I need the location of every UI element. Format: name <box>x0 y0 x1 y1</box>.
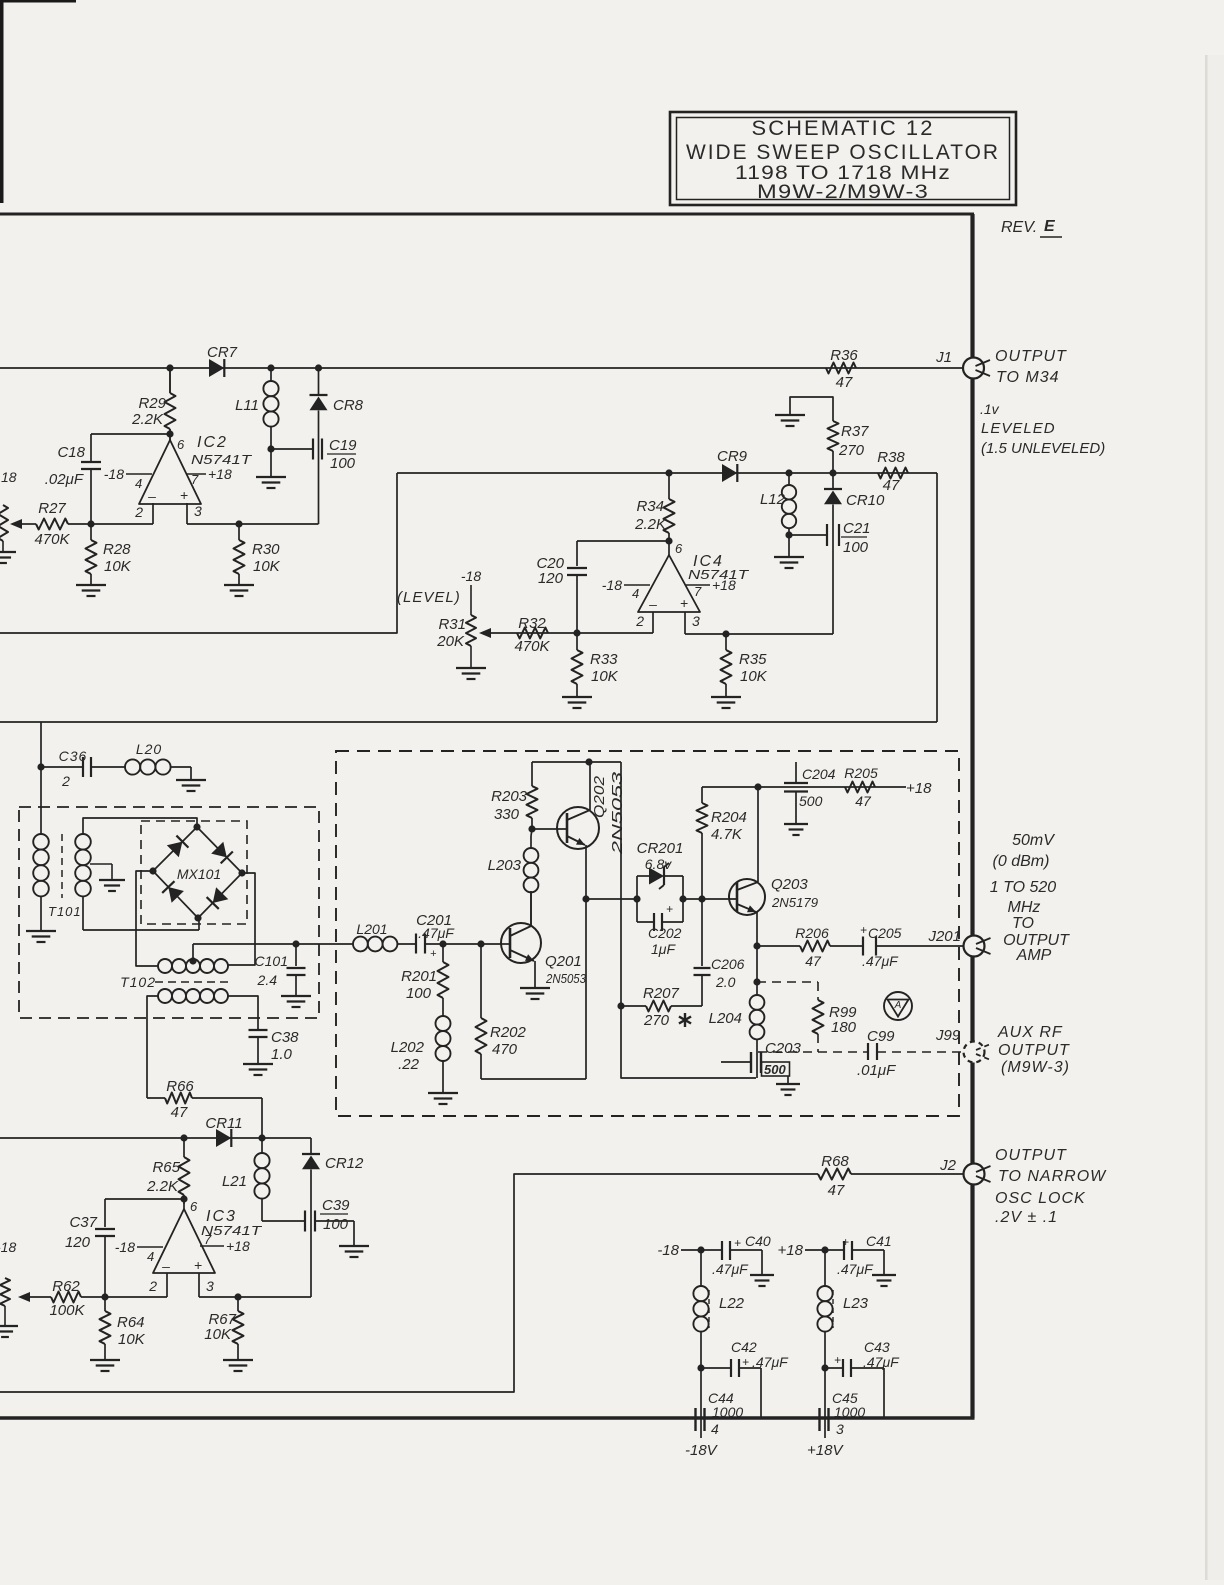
ground: R33 <box>562 696 592 698</box>
svg-text:R36: R36 <box>830 347 858 364</box>
svg-text:1000: 1000 <box>834 1404 865 1420</box>
resistor R67 <box>237 1297 239 1311</box>
svg-text:47: 47 <box>836 374 853 391</box>
svg-text:3: 3 <box>206 1278 214 1294</box>
svg-text:2.4: 2.4 <box>257 972 278 988</box>
ground: C101 <box>281 995 311 997</box>
IC2 pin4 -18 <box>126 473 152 475</box>
svg-text:AMP: AMP <box>1016 947 1052 964</box>
svg-text:7: 7 <box>204 1232 212 1247</box>
node: R202 top <box>477 940 484 947</box>
svg-text:C206: C206 <box>711 956 745 972</box>
wire: T102 tap up to RF line <box>192 944 194 961</box>
resistor R65 <box>179 1157 190 1195</box>
resistor R37 and ground stub <box>832 451 834 473</box>
svg-text:+18: +18 <box>712 577 736 593</box>
capacitor C206 <box>701 899 703 966</box>
resistor R30 <box>238 524 240 540</box>
svg-text:(1.5 UNLEVELED): (1.5 UNLEVELED) <box>981 440 1105 457</box>
svg-text:.47μF: .47μF <box>752 1354 789 1370</box>
inductor L22 <box>700 1250 702 1286</box>
svg-text:100: 100 <box>323 1216 349 1233</box>
svg-text:2: 2 <box>134 504 143 520</box>
svg-text:L23: L23 <box>843 1295 869 1312</box>
node: C43 tee <box>821 1364 828 1371</box>
svg-text:N5741T: N5741T <box>191 452 252 467</box>
svg-text:(0 dBm): (0 dBm) <box>993 853 1050 870</box>
node: R33 top <box>573 629 580 636</box>
capacitor C18 <box>81 461 101 463</box>
svg-text:.47μF: .47μF <box>862 953 899 969</box>
svg-text:MHz: MHz <box>1008 899 1041 916</box>
capacitor C21 <box>789 534 827 536</box>
svg-text:C202: C202 <box>648 925 682 941</box>
svg-text:TO: TO <box>1012 915 1034 932</box>
svg-text:2.2K: 2.2K <box>131 411 164 428</box>
node: L11 bottom <box>267 445 274 452</box>
svg-text:120: 120 <box>65 1234 91 1251</box>
node: R201 top <box>439 940 446 947</box>
capacitor C39 <box>262 1220 305 1222</box>
node: bridge top vertex <box>193 823 200 830</box>
IC3 pin4 -18 <box>137 1246 163 1248</box>
resistor R35 <box>725 634 727 650</box>
resistor R33 <box>576 633 578 650</box>
svg-text:-18: -18 <box>0 1239 16 1255</box>
svg-text:C41: C41 <box>866 1233 892 1249</box>
wire: collector supply drop <box>621 762 756 1078</box>
svg-text:.02μF: .02μF <box>45 471 84 488</box>
svg-text:REV.: REV. <box>1001 219 1037 236</box>
svg-text:1000: 1000 <box>712 1404 743 1420</box>
wire: T101 secondary bottom to bridge <box>83 929 199 931</box>
ground: C203 <box>776 1083 800 1085</box>
svg-text:100: 100 <box>843 539 869 556</box>
capacitor C20 <box>567 567 587 569</box>
svg-text:-18V: -18V <box>685 1442 719 1459</box>
svg-text:E: E <box>1044 218 1056 235</box>
svg-text:C21: C21 <box>843 520 871 537</box>
svg-text:10K: 10K <box>204 1326 232 1343</box>
wire: CR201 to Q203 base <box>683 898 737 900</box>
wire: pin2 node to riser <box>105 1296 167 1298</box>
svg-text:R38: R38 <box>877 449 905 466</box>
svg-text:+: + <box>680 595 688 611</box>
IC3 pin2 riser <box>166 1273 168 1297</box>
node: CR201 right <box>679 895 686 902</box>
svg-text:2.0: 2.0 <box>715 974 736 990</box>
node: L22 top <box>697 1246 704 1253</box>
svg-text:10K: 10K <box>740 668 768 685</box>
svg-text:+: + <box>666 902 673 916</box>
svg-text:L203: L203 <box>488 857 522 874</box>
node: L12 top <box>785 469 792 476</box>
svg-text:+: + <box>834 1353 841 1367</box>
mixer diode bottom-left <box>168 887 184 903</box>
svg-text:L21: L21 <box>222 1173 247 1190</box>
svg-text:R32: R32 <box>518 615 546 632</box>
node: T102 primary tap <box>189 957 196 964</box>
node: C101 junction <box>292 940 299 947</box>
node: IC3 pin2 node <box>101 1293 108 1300</box>
svg-text:1198 TO 1718 MHz: 1198 TO 1718 MHz <box>735 163 951 184</box>
node: Q202 collector junction <box>585 758 592 765</box>
svg-text:R64: R64 <box>117 1314 145 1331</box>
svg-text:1.0: 1.0 <box>271 1046 293 1063</box>
svg-text:-18: -18 <box>104 466 124 482</box>
ground: C41 <box>872 1274 896 1276</box>
ground: C39 <box>339 1245 369 1247</box>
svg-text:4.7K: 4.7K <box>711 826 743 843</box>
svg-text:470: 470 <box>492 1041 518 1058</box>
node: C36 tee <box>37 763 44 770</box>
svg-text:.22: .22 <box>398 1056 420 1073</box>
svg-text:+18: +18 <box>208 466 232 482</box>
node: Q203 emitter junction <box>753 942 760 949</box>
transformer T102 primary <box>158 959 172 973</box>
node: C42 tee <box>697 1364 704 1371</box>
node: Q203 collector junction <box>754 783 761 790</box>
svg-text:CR12: CR12 <box>325 1155 364 1172</box>
node: R34 top <box>665 469 672 476</box>
dashed aux branch <box>757 981 818 983</box>
node: L21 top <box>258 1134 265 1141</box>
svg-text:OSC LOCK: OSC LOCK <box>995 1190 1086 1207</box>
svg-text:(M9W-3): (M9W-3) <box>1001 1059 1070 1076</box>
IC4 pin2 riser <box>652 612 654 633</box>
svg-text:–: – <box>648 596 657 612</box>
svg-text:47: 47 <box>855 793 872 809</box>
svg-text:100K: 100K <box>49 1302 85 1319</box>
inductor L21 <box>261 1138 263 1153</box>
svg-text:+: + <box>180 487 188 503</box>
symbol: circled test point A <box>884 992 912 1020</box>
node: L12 bottom <box>785 531 792 538</box>
resistor R204 <box>701 833 703 899</box>
node: L23 top <box>821 1246 828 1253</box>
node: CR10 top <box>829 469 836 476</box>
svg-text:T102: T102 <box>120 974 156 990</box>
svg-text:3: 3 <box>194 503 202 519</box>
svg-text:2N5053: 2N5053 <box>545 971 587 986</box>
IC4 pin3 riser <box>684 612 686 634</box>
mixer MX101 diamond ring <box>153 827 242 918</box>
node: IC2 pin6 junction <box>166 430 173 437</box>
node: Q202 emitter junction <box>582 895 589 902</box>
svg-text:2N5179: 2N5179 <box>771 895 818 910</box>
diode CR11 <box>216 1129 231 1147</box>
node: IC4 pin6 <box>665 537 672 544</box>
IC3 pin7 +18 <box>200 1245 224 1247</box>
capacitor C99 <box>867 1043 869 1060</box>
diode CR9 <box>722 464 737 482</box>
svg-text:2: 2 <box>148 1278 157 1294</box>
svg-text:Q201: Q201 <box>545 953 582 970</box>
node: CR201 left <box>633 895 640 902</box>
svg-text:R30: R30 <box>252 541 280 558</box>
feedthrough C203 <box>721 1061 751 1063</box>
op-amp IC2 <box>169 429 171 440</box>
capacitor C202 <box>637 921 654 923</box>
capacitor C19 <box>271 448 313 450</box>
svg-text:-18: -18 <box>657 1242 679 1259</box>
svg-text:6: 6 <box>190 1199 198 1214</box>
svg-text:3: 3 <box>836 1421 844 1437</box>
feedthrough C44 <box>700 1368 702 1438</box>
capacitor C205 <box>862 937 864 956</box>
svg-text:270: 270 <box>643 1012 670 1029</box>
resistor R38 <box>878 468 908 479</box>
wire: feedback left drop <box>0 473 397 633</box>
resistor R99 <box>813 1000 824 1034</box>
svg-text:R28: R28 <box>103 541 131 558</box>
svg-text:4: 4 <box>711 1421 719 1437</box>
svg-text:.47μF: .47μF <box>418 925 455 941</box>
ground: R30 <box>224 584 254 586</box>
zener CR201 / C202 loop <box>636 876 638 922</box>
wire: C37 top <box>105 1198 184 1200</box>
wire: CR12 branch <box>310 1138 312 1154</box>
svg-text:J201: J201 <box>927 928 961 945</box>
svg-text:IC2: IC2 <box>197 434 228 451</box>
wire: main top line to J1 <box>0 367 963 369</box>
node: R29 top junction <box>166 364 173 371</box>
svg-text:–: – <box>147 488 156 504</box>
svg-text:Q202: Q202 <box>591 775 608 818</box>
svg-text:50mV: 50mV <box>1012 832 1055 849</box>
wire: IC4 pin3 line <box>685 633 833 635</box>
node: R35 top <box>722 630 729 637</box>
wire: R38 down leg <box>936 473 938 722</box>
ground: C204 <box>784 823 808 825</box>
ground: L20 <box>190 767 192 779</box>
node: R67 top <box>234 1293 241 1300</box>
svg-text:-18: -18 <box>602 577 622 593</box>
svg-text:2.2K: 2.2K <box>146 1178 179 1195</box>
svg-text:TO NARROW: TO NARROW <box>998 1168 1107 1185</box>
svg-text:10K: 10K <box>253 558 281 575</box>
T101 core dashed line <box>61 834 63 898</box>
resistor R206 <box>757 945 800 947</box>
node: bridge bottom vertex <box>194 914 201 921</box>
resistor R29 <box>169 368 171 393</box>
svg-text:R68: R68 <box>821 1153 849 1170</box>
T102 core dashed line <box>155 981 230 983</box>
wire: IC3 pin3 line <box>199 1296 311 1298</box>
IC3 pin3 riser <box>198 1273 200 1297</box>
IC2 pin3 riser <box>186 503 188 524</box>
diode CR8 <box>318 368 320 395</box>
node: bridge left vertex <box>149 867 156 874</box>
svg-text:R62: R62 <box>52 1278 80 1295</box>
connector J201 <box>964 936 985 957</box>
svg-text:+: + <box>194 1257 202 1273</box>
ground: L202 <box>428 1092 458 1094</box>
svg-text:CR10: CR10 <box>846 492 885 509</box>
svg-text:J99: J99 <box>935 1027 961 1044</box>
svg-text:MX101: MX101 <box>177 866 221 882</box>
svg-text:180: 180 <box>831 1019 857 1036</box>
svg-text:6: 6 <box>177 437 185 452</box>
svg-text:C205: C205 <box>868 925 902 941</box>
inductor L11 <box>270 368 272 381</box>
svg-text:(LEVEL): (LEVEL) <box>397 589 461 606</box>
svg-text:LEVELED: LEVELED <box>981 420 1056 437</box>
svg-text:R33: R33 <box>590 651 618 668</box>
T101 secondary center tap ground <box>90 863 112 865</box>
svg-text:J2: J2 <box>939 1157 957 1174</box>
dashed box: T101/T102 mixer assembly <box>19 807 319 1018</box>
svg-text:47: 47 <box>883 477 900 494</box>
svg-text:C40: C40 <box>745 1233 771 1249</box>
svg-text:100: 100 <box>406 985 432 1002</box>
svg-text:C19: C19 <box>329 437 357 454</box>
svg-text:7: 7 <box>191 472 199 487</box>
node: Q202 base node <box>528 825 535 832</box>
svg-text:OUTPUT: OUTPUT <box>995 1147 1067 1164</box>
svg-text:2N5053: 2N5053 <box>609 771 626 856</box>
wire: pin2 node to riser <box>91 523 153 525</box>
transformer T102 secondary <box>158 989 172 1003</box>
svg-text:500: 500 <box>799 793 823 809</box>
capacitor C42 <box>701 1367 731 1369</box>
wire: IC4 pin2 line <box>488 632 653 634</box>
ground: R35 <box>711 696 741 698</box>
svg-text:R201: R201 <box>401 968 437 985</box>
connector J99 (dashed) <box>964 1042 985 1063</box>
inductor L201 <box>353 937 368 952</box>
dashed box: oscillator module <box>336 751 959 1116</box>
resistor R36 <box>826 363 856 374</box>
ground: Q201 emitter <box>520 987 550 989</box>
svg-text:M9W-2/M9W-3: M9W-2/M9W-3 <box>757 182 929 203</box>
svg-text:4: 4 <box>147 1249 154 1264</box>
node: L204 top tap <box>753 978 760 985</box>
svg-text:–: – <box>161 1258 170 1274</box>
svg-text:7: 7 <box>694 584 702 599</box>
svg-text:470K: 470K <box>34 531 70 548</box>
wire: left vertex to T102 <box>136 871 158 966</box>
svg-text:C39: C39 <box>322 1197 350 1214</box>
capacitor C37 <box>95 1228 115 1230</box>
svg-text:OUTPUT: OUTPUT <box>998 1042 1070 1059</box>
svg-text:47: 47 <box>171 1104 188 1121</box>
node: IC3 pin6 <box>180 1195 187 1202</box>
svg-text:R207: R207 <box>643 985 680 1002</box>
ground: R64 <box>90 1359 120 1361</box>
transistor Q202 <box>557 807 599 849</box>
svg-text:47: 47 <box>805 953 822 969</box>
svg-text:R204: R204 <box>711 809 747 826</box>
svg-text:C204: C204 <box>802 766 836 782</box>
svg-text:6: 6 <box>675 541 683 556</box>
svg-text:1μF: 1μF <box>651 941 676 957</box>
svg-text:R202: R202 <box>490 1024 527 1041</box>
svg-text:R31: R31 <box>438 616 466 633</box>
connector J1 <box>963 358 984 379</box>
wire: RF line to L201 <box>193 943 353 945</box>
inductor L203 <box>524 848 539 863</box>
page artifact: right page-edge shadow line <box>1205 55 1208 1580</box>
op-amp IC4 <box>638 555 700 612</box>
wire: right vertex to T102 <box>228 873 255 965</box>
resistor R64 <box>104 1297 106 1311</box>
IC4 pin7 +18 <box>686 584 710 586</box>
svg-text:C203: C203 <box>765 1040 802 1057</box>
mixer diode top-left <box>167 842 183 858</box>
capacitor C43 <box>825 1367 843 1369</box>
connector J2 <box>964 1164 985 1185</box>
inductor L204 <box>756 946 758 995</box>
svg-text:CR9: CR9 <box>717 448 748 465</box>
node: IC2 pin2 node <box>87 520 94 527</box>
transistor Q203 <box>729 879 765 915</box>
wire: Q202 collector top line <box>532 761 621 763</box>
capacitor C41 <box>825 1249 844 1251</box>
transformer T101 secondary <box>75 834 91 850</box>
transformer T101 primary <box>40 767 42 834</box>
svg-text:OUTPUT: OUTPUT <box>995 348 1067 365</box>
ground: L11 <box>270 449 272 476</box>
svg-text:CR11: CR11 <box>205 1115 242 1132</box>
svg-text:.1v: .1v <box>980 401 1000 417</box>
capacitor C101 <box>295 944 297 966</box>
svg-text:SCHEMATIC 12: SCHEMATIC 12 <box>752 117 935 140</box>
resistor R32 <box>517 628 548 639</box>
capacitor C36 <box>41 766 83 768</box>
svg-text:R206: R206 <box>795 925 829 941</box>
node: R207 left <box>617 1002 624 1009</box>
svg-text:+: + <box>734 1236 741 1250</box>
wire: bottom feedback line y722 <box>0 721 937 723</box>
wire: Q202 emitter to CR201 <box>586 898 637 900</box>
svg-text:100: 100 <box>330 455 356 472</box>
resistor R202 <box>480 944 482 1018</box>
feedthrough C204 <box>784 782 808 784</box>
IC2 pin7 +18 <box>186 473 206 475</box>
title box <box>670 112 1016 205</box>
svg-text:C36: C36 <box>59 748 88 764</box>
svg-text:C42: C42 <box>731 1339 757 1355</box>
ground: C38 <box>243 1063 273 1065</box>
svg-text:3: 3 <box>692 613 700 629</box>
capacitor C201 <box>415 934 417 954</box>
svg-text:J1: J1 <box>935 349 952 366</box>
svg-text:.47μF: .47μF <box>712 1261 749 1277</box>
svg-text:R27: R27 <box>38 500 66 517</box>
node: R65 top <box>180 1134 187 1141</box>
svg-text:L202: L202 <box>391 1039 425 1056</box>
resistor R203 <box>531 818 533 829</box>
svg-text:C99: C99 <box>867 1028 895 1045</box>
ground: C40 <box>750 1274 774 1276</box>
mixer MX101 dashed box <box>141 821 247 924</box>
ground: R67 <box>223 1359 253 1361</box>
svg-text:2: 2 <box>61 773 70 789</box>
inductor L23 <box>824 1250 826 1286</box>
svg-text:A: A <box>894 1000 902 1011</box>
svg-text:L201: L201 <box>356 921 387 937</box>
wire: IC2 pin3 line <box>187 523 319 525</box>
svg-text:120: 120 <box>538 570 564 587</box>
wire: +18 supply line <box>702 786 906 788</box>
IC4 pin4 -18 <box>624 584 650 586</box>
resistor R66 <box>146 1092 148 1098</box>
svg-text:L204: L204 <box>709 1010 742 1027</box>
svg-text:+18: +18 <box>906 780 932 797</box>
svg-text:C38: C38 <box>271 1029 299 1046</box>
resistor R28 <box>90 524 92 540</box>
